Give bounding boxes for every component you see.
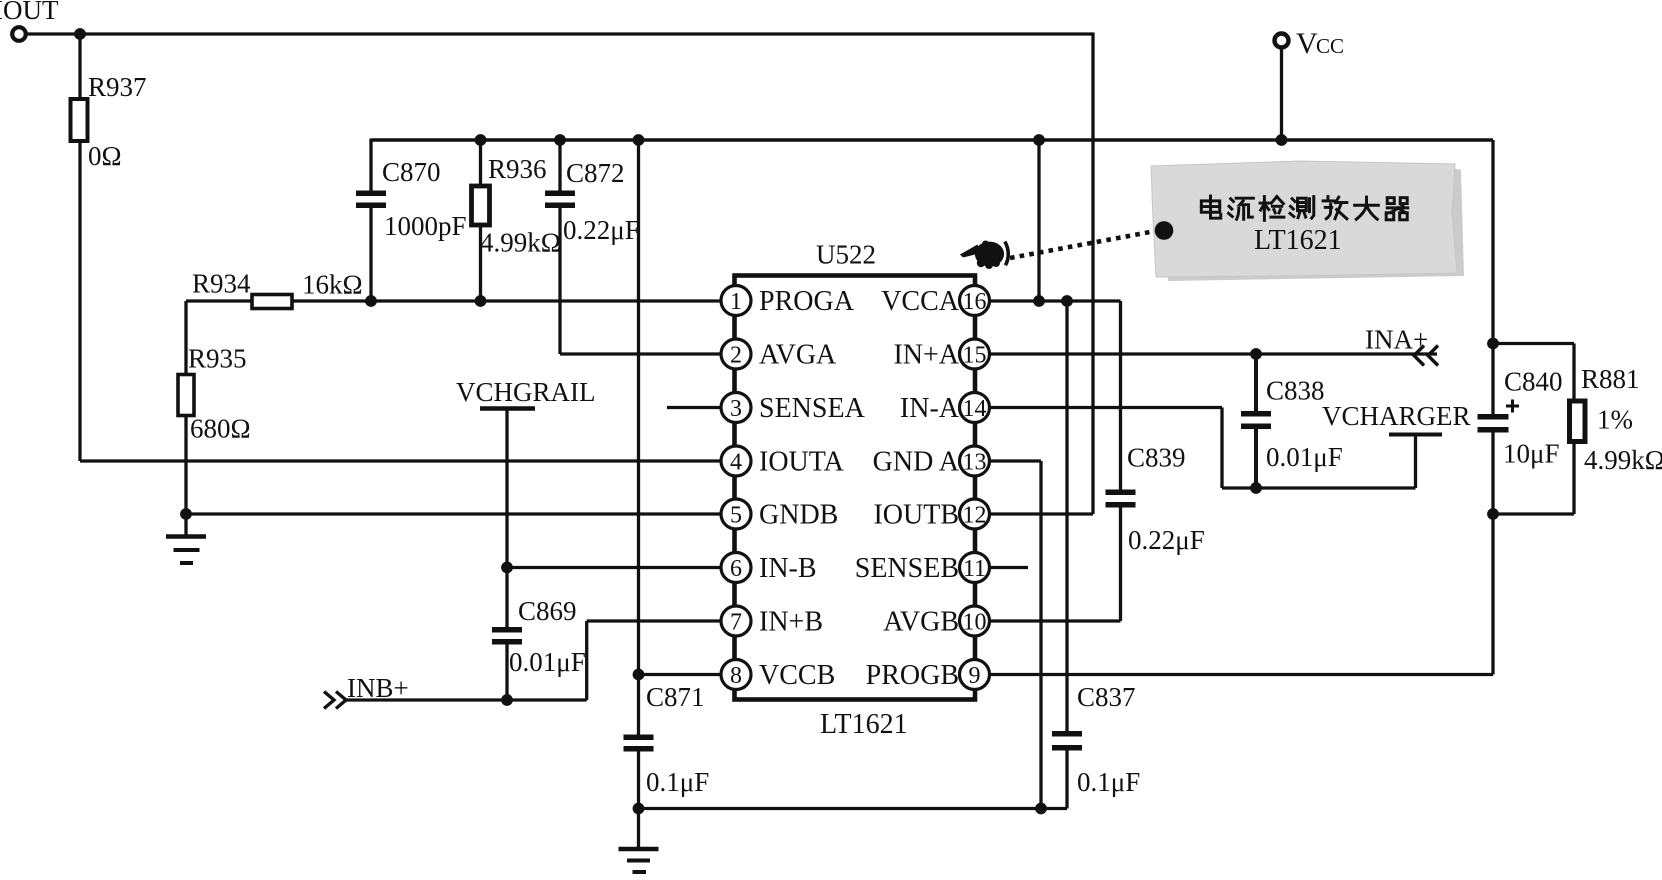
junction C870/PROGA xyxy=(365,295,377,307)
junction C872/bus xyxy=(554,134,566,146)
svg-text:C872: C872 xyxy=(566,158,625,188)
resistor R937 xyxy=(71,72,147,171)
capacitor C869 xyxy=(492,596,586,677)
wire INB+ xyxy=(346,698,587,701)
wire R881 top lead xyxy=(1493,344,1574,403)
svg-text:VCHGRAIL: VCHGRAIL xyxy=(456,377,596,407)
pin 1 PROGA xyxy=(721,286,855,318)
wire VCHGRAIL down xyxy=(505,409,508,568)
terminal VCC xyxy=(1275,27,1345,60)
svg-text:16: 16 xyxy=(963,289,987,315)
svg-text:PROGA: PROGA xyxy=(759,286,855,317)
capacitor C870 xyxy=(356,157,467,241)
capacitor C839 xyxy=(1106,443,1205,556)
svg-text:LT1621: LT1621 xyxy=(1254,225,1342,256)
wire GNDB pin5 xyxy=(186,512,721,515)
svg-text:1%: 1% xyxy=(1597,405,1633,435)
svg-text:R935: R935 xyxy=(188,344,247,374)
wire C840 branch vertical xyxy=(1491,140,1494,675)
IC U522 LT1621 body xyxy=(735,240,976,741)
wire PROGA pin1 xyxy=(292,299,721,302)
wire C870 bottom lead xyxy=(369,208,372,301)
svg-text:7: 7 xyxy=(730,610,742,636)
junction x1039/bus xyxy=(1033,134,1045,146)
svg-text:0.22μF: 0.22μF xyxy=(1128,525,1205,555)
wire C870 top lead xyxy=(369,139,372,192)
svg-text:0Ω: 0Ω xyxy=(88,141,122,171)
svg-text:V: V xyxy=(1296,27,1318,60)
pin 8 VCCB xyxy=(721,660,835,692)
svg-text:9: 9 xyxy=(969,663,981,689)
wire R881 bottom lead xyxy=(1493,442,1574,515)
svg-text:4.99kΩ: 4.99kΩ xyxy=(480,228,561,258)
pin 7 IN+B xyxy=(721,606,823,638)
wire R936 bottom lead xyxy=(479,225,482,301)
svg-text:R881: R881 xyxy=(1581,364,1640,394)
junction C869/INB+ xyxy=(501,694,513,706)
svg-text:PROGB: PROGB xyxy=(866,660,959,691)
wire SENSEA stub xyxy=(667,406,721,409)
svg-text:C839: C839 xyxy=(1127,443,1186,473)
svg-text:C870: C870 xyxy=(382,157,441,187)
rail VCHARGER xyxy=(1322,401,1471,488)
pin 5 GNDB xyxy=(721,499,838,531)
wire x1039 vertical xyxy=(1037,140,1040,301)
pin 14 IN-A xyxy=(900,393,990,425)
resistor R936 xyxy=(472,154,561,258)
junction R935/GNDB xyxy=(180,508,192,520)
callout text LT1621 xyxy=(1254,225,1342,256)
svg-text:15: 15 xyxy=(963,343,987,369)
wire PROGB pin9 to right xyxy=(989,673,1493,676)
wire C838 lower lead xyxy=(1254,429,1258,488)
pin 4 IOUTA xyxy=(721,446,845,478)
callout hand pointer xyxy=(960,241,1008,270)
capacitor C837 xyxy=(1052,682,1140,797)
wire R937 lower lead down xyxy=(78,141,81,461)
ground bus bottom xyxy=(639,807,1068,810)
svg-text:3: 3 xyxy=(730,396,742,422)
resistor R935 xyxy=(178,344,251,444)
junction VCCA/x1039 xyxy=(1033,295,1045,307)
svg-text:IOUTB: IOUTB xyxy=(873,500,959,531)
capacitor C872 xyxy=(545,158,640,245)
svg-text:U522: U522 xyxy=(816,240,876,270)
svg-text:11: 11 xyxy=(963,556,986,582)
junction x638/bus xyxy=(633,134,645,146)
pin 16 VCCA xyxy=(881,286,989,318)
svg-text:LT1621: LT1621 xyxy=(820,709,908,740)
junction VCCB/C871 xyxy=(633,669,645,681)
junction R936/bus xyxy=(475,134,487,146)
wire IN+A pin15 xyxy=(989,352,1437,355)
wire C872 bottom lead to pin2 xyxy=(560,208,721,354)
svg-text:IOUTA: IOUTA xyxy=(759,447,845,478)
svg-text:R937: R937 xyxy=(88,72,147,102)
pin 15 IN+A xyxy=(893,339,989,371)
wire pin12 IOUTB xyxy=(989,512,1093,515)
capacitor C871 xyxy=(624,675,710,798)
wire C839 upper lead xyxy=(1119,301,1122,490)
svg-text:C869: C869 xyxy=(518,596,577,626)
wire VCCB vertical xyxy=(637,140,640,675)
svg-text:VCCB: VCCB xyxy=(759,660,835,691)
capacitor C840 xyxy=(1478,367,1563,469)
svg-text:4: 4 xyxy=(730,450,742,476)
wire GND A pin13 xyxy=(989,461,1041,809)
junction R881 bottom xyxy=(1487,508,1499,520)
wire IN+B step xyxy=(587,621,721,700)
svg-text:AVGA: AVGA xyxy=(759,340,837,371)
wire IN-B pin6 xyxy=(507,566,721,569)
pin 6 IN-B xyxy=(721,553,817,585)
wire R934 left xyxy=(186,299,253,302)
terminal IOUT xyxy=(0,0,59,41)
junction R936/PROGA xyxy=(475,295,487,307)
svg-text:R936: R936 xyxy=(488,154,547,184)
callout box shadow xyxy=(1167,167,1464,281)
svg-text:C838: C838 xyxy=(1266,376,1325,406)
rail VCHGRAIL xyxy=(456,377,596,409)
ground symbol left xyxy=(166,514,206,563)
junction GNDA/ground bus xyxy=(1035,803,1047,815)
svg-text:12: 12 xyxy=(963,503,987,529)
svg-text:IN+A: IN+A xyxy=(893,340,959,371)
wire C872 top lead xyxy=(558,140,561,191)
svg-text:0.01μF: 0.01μF xyxy=(509,647,586,677)
node INA+ xyxy=(1365,325,1438,366)
callout leader dotted line xyxy=(1010,232,1153,259)
svg-text:C871: C871 xyxy=(646,682,705,712)
junction IN+A/C838 xyxy=(1250,348,1262,360)
wire SENSEB stub xyxy=(989,566,1028,569)
junction C838/IN-A xyxy=(1250,482,1262,494)
callout anchor dot xyxy=(1155,221,1174,240)
svg-text:C837: C837 xyxy=(1077,682,1136,712)
callout text 电流检测放大器 xyxy=(1201,196,1407,220)
pin 12 IOUTB xyxy=(873,499,989,531)
wire C838 upper lead xyxy=(1254,354,1258,412)
junction IOUT/R937 xyxy=(74,28,86,40)
wire VCC down xyxy=(1280,47,1283,140)
svg-text:C840: C840 xyxy=(1504,367,1563,397)
wire IOUT corner down to pin12 xyxy=(1091,33,1094,515)
svg-text:GND A: GND A xyxy=(873,447,960,478)
wire R936 top lead xyxy=(479,140,482,187)
pin 10 AVGB xyxy=(883,606,989,638)
ground symbol bottom xyxy=(619,809,659,873)
junction VCHGRAIL/IN-B xyxy=(501,562,513,574)
wire IOUTA pin4 xyxy=(80,459,721,462)
resistor R934 xyxy=(192,269,363,309)
resistor R881 xyxy=(1570,364,1662,475)
wire R935 lower lead xyxy=(184,415,187,514)
svg-text:1: 1 xyxy=(730,289,742,315)
svg-text:0.1μF: 0.1μF xyxy=(646,767,709,797)
svg-text:SENSEB: SENSEB xyxy=(855,553,959,584)
capacitor C838 xyxy=(1241,376,1343,473)
VCC bus xyxy=(371,138,1493,141)
svg-text:SENSEA: SENSEA xyxy=(759,393,866,424)
svg-text:4.99kΩ: 4.99kΩ xyxy=(1584,445,1662,475)
svg-text:IN-B: IN-B xyxy=(759,553,817,584)
pin 3 SENSEA xyxy=(721,393,866,425)
svg-text:VCCA: VCCA xyxy=(881,286,960,317)
svg-text:IN-A: IN-A xyxy=(900,393,960,424)
svg-text:AVGB: AVGB xyxy=(883,607,959,638)
wire VCCA pin16 xyxy=(989,299,1121,302)
node INB+ xyxy=(324,673,409,709)
svg-text:2: 2 xyxy=(730,343,742,369)
wire R935 upper lead xyxy=(184,301,187,376)
svg-text:IOUT: IOUT xyxy=(0,0,59,25)
junction VCCA/C837 xyxy=(1061,295,1073,307)
wire pin8 VCCB xyxy=(639,673,722,676)
svg-text:IN+B: IN+B xyxy=(759,607,823,638)
pin 2 AVGA xyxy=(721,339,837,371)
callout box xyxy=(1151,161,1457,277)
pin 9 PROGB xyxy=(866,660,990,692)
svg-text:16kΩ: 16kΩ xyxy=(302,270,363,300)
svg-text:10μF: 10μF xyxy=(1503,439,1560,469)
svg-text:R934: R934 xyxy=(192,269,251,299)
junction R881 top xyxy=(1487,338,1499,350)
svg-text:13: 13 xyxy=(963,450,987,476)
svg-text:6: 6 xyxy=(730,556,742,582)
svg-text:0.01μF: 0.01μF xyxy=(1266,442,1343,472)
svg-text:GNDB: GNDB xyxy=(759,500,838,531)
svg-text:8: 8 xyxy=(730,663,742,689)
svg-text:10: 10 xyxy=(963,610,987,636)
wire C837 upper lead xyxy=(1065,301,1068,732)
wire IN-A pin14 route xyxy=(989,408,1416,489)
wire R937 upper lead xyxy=(78,34,81,100)
wire C839 lower lead to AVGB xyxy=(989,508,1121,622)
svg-text:VCHARGER: VCHARGER xyxy=(1322,401,1471,431)
wire C869 top lead xyxy=(505,568,508,628)
svg-text:14: 14 xyxy=(963,396,987,422)
svg-text:680Ω: 680Ω xyxy=(190,414,251,444)
pin 13 GND A xyxy=(873,446,990,478)
wire IOUT top xyxy=(27,32,1093,35)
svg-text:5: 5 xyxy=(730,503,742,529)
svg-text:CC: CC xyxy=(1316,34,1344,58)
wire C871 bottom lead xyxy=(637,751,640,809)
junction VCC/bus xyxy=(1276,134,1288,146)
svg-text:0.1μF: 0.1μF xyxy=(1077,767,1140,797)
junction C871/ground bus xyxy=(633,803,645,815)
svg-text:1000pF: 1000pF xyxy=(384,211,467,241)
wire C869 bottom lead xyxy=(505,645,508,701)
svg-text:0.22μF: 0.22μF xyxy=(563,215,640,245)
wire C837 lower lead xyxy=(1065,749,1068,809)
pin 11 SENSEB xyxy=(855,553,990,585)
